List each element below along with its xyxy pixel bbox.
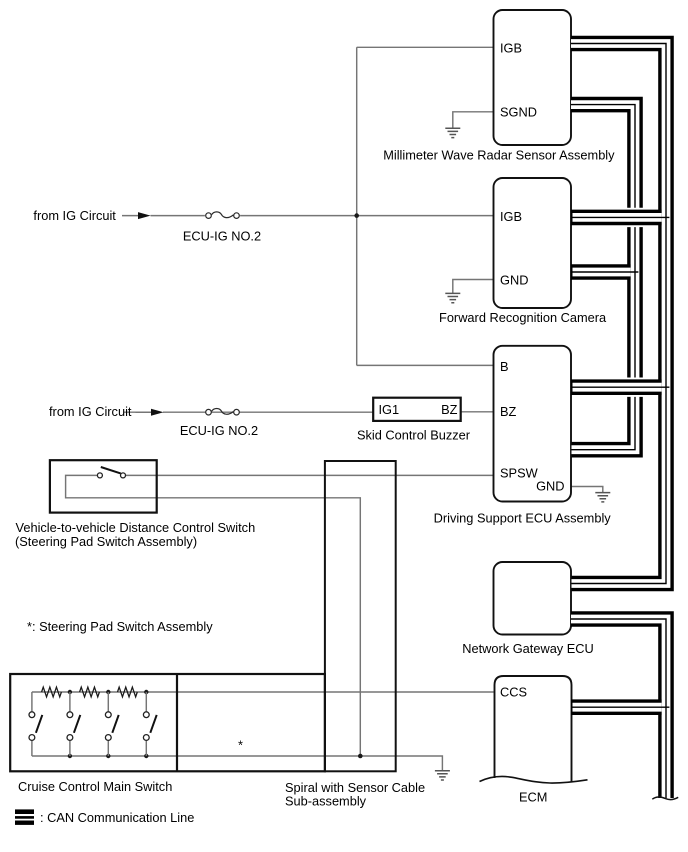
node dots on common row	[68, 754, 72, 758]
svg-text:Cruise Control Main Switch: Cruise Control Main Switch	[18, 779, 172, 794]
wire ECU GND to ground	[571, 487, 603, 493]
svg-text:Driving Support ECU Assembly: Driving Support ECU Assembly	[434, 511, 612, 526]
box ECM U5 (torn bottom)	[495, 676, 572, 782]
svg-text:BZ: BZ	[500, 404, 517, 419]
svg-text:CCS: CCS	[500, 684, 527, 699]
switch vehicle-to-vehicle distance control	[97, 467, 125, 478]
box spiral with sensor cable sub-assembly	[325, 461, 396, 771]
wire cruise switch common to ground (through spiral cable)	[32, 756, 443, 770]
svg-text:GND: GND	[536, 478, 564, 493]
wire trunk A2 torn end squiggle	[652, 797, 678, 800]
CAN line path1: radar IGB to trunk A to network gateway upper pin	[571, 44, 666, 584]
switch cruise column 4	[143, 692, 156, 756]
switch cruise column 1	[29, 692, 42, 756]
svg-text:*: Steering Pad Switch Assembl: *: Steering Pad Switch Assembly	[27, 619, 213, 634]
svg-text:from IG Circuit: from IG Circuit	[49, 404, 132, 419]
box forward recognition camera U2	[494, 178, 572, 308]
svg-text:Millimeter Wave Radar Sensor A: Millimeter Wave Radar Sensor Assembly	[383, 147, 615, 162]
box network gateway ECU U4	[494, 562, 572, 635]
wire cruise box divider	[176, 674, 178, 771]
svg-text:*: *	[238, 737, 243, 752]
svg-text:Forward Recognition Camera: Forward Recognition Camera	[439, 310, 607, 325]
CAN line path2: radar SGND to trunk B to ECU lower pin	[571, 105, 635, 450]
svg-text:Vehicle-to-vehicle Distance Co: Vehicle-to-vehicle Distance Control Swit…	[16, 520, 256, 535]
svg-text:Network Gateway ECU: Network Gateway ECU	[462, 641, 594, 656]
svg-text:ECU-IG NO.2: ECU-IG NO.2	[183, 228, 261, 243]
CAN line path6: network gateway lower pin to trunk A2 down to torn end	[571, 619, 666, 798]
box driving support ECU assembly U3	[494, 346, 572, 502]
wire radar IGB feed	[357, 46, 494, 48]
svg-text:GND: GND	[500, 273, 528, 288]
box vehicle-to-vehicle distance control switch	[50, 460, 157, 512]
CAN line path5: ECU upper pin crossing trunk B to trunk A (T join)	[571, 378, 669, 397]
box cruise control main switch	[10, 674, 325, 771]
svg-text:Sub-assembly: Sub-assembly	[285, 794, 367, 809]
box millimeter wave radar sensor assembly U1	[494, 10, 572, 145]
svg-text:IG1: IG1	[379, 402, 400, 417]
svg-text:IGB: IGB	[500, 41, 522, 56]
wire row 2 from fuse to buzzer	[124, 411, 373, 413]
resistor R1 cruise switch	[42, 687, 62, 697]
fuse ECU-IG NO.2 row 1	[206, 212, 240, 219]
arrow from IG circuit row 2	[136, 411, 153, 413]
svg-text:ECU-IG NO.2: ECU-IG NO.2	[180, 423, 258, 438]
CAN line path4: camera GND level to trunk B (T join)	[571, 264, 638, 280]
wire distance switch return through spiral cable	[66, 475, 361, 756]
wire radar SGND to ground	[453, 112, 494, 128]
ground camera GND	[445, 293, 460, 302]
fuse ECU-IG NO.2 row 2	[206, 408, 240, 415]
wire cruise switch resistor row to ECM CCS	[32, 691, 494, 693]
node junction dot row1/vertical bus	[354, 213, 359, 218]
wire ECU B feed	[357, 364, 494, 366]
wire camera IGB feed (row 1 from fuse to camera)	[151, 215, 494, 217]
svg-text:BZ: BZ	[441, 402, 458, 417]
arrow from IG circuit row 1	[122, 215, 139, 217]
svg-text:SGND: SGND	[500, 104, 537, 119]
resistor R2 cruise switch	[80, 687, 100, 697]
ground cruise switch common	[435, 771, 450, 780]
node dots on resistor row	[68, 690, 72, 694]
CAN line path7: ECM CCS level to trunk A2 (T join)	[571, 699, 669, 715]
ground driving support ECU GND	[595, 493, 610, 502]
wire SPSW from distance switch to ECU	[126, 474, 494, 476]
resistor R3 cruise switch	[118, 687, 138, 697]
svg-text:from IG Circuit: from IG Circuit	[33, 208, 116, 223]
wire buzzer BZ to ECU BZ	[461, 411, 494, 413]
ground radar SGND	[445, 128, 460, 137]
switch cruise column 3	[105, 692, 118, 756]
svg-text:B: B	[500, 359, 509, 374]
svg-text:ECM: ECM	[519, 790, 547, 805]
wire camera GND to ground	[453, 280, 494, 294]
node junction dot spiral cable	[358, 754, 363, 759]
wire ECM torn bottom edge	[480, 776, 588, 783]
svg-text:Skid Control Buzzer: Skid Control Buzzer	[357, 428, 471, 443]
svg-text:IGB: IGB	[500, 209, 522, 224]
box skid control buzzer	[373, 398, 461, 421]
legend CAN communication line symbol	[15, 809, 34, 825]
svg-text:(Steering Pad Switch Assembly): (Steering Pad Switch Assembly)	[15, 534, 197, 549]
svg-text:: CAN Communication Line: : CAN Communication Line	[40, 810, 194, 825]
CAN line path3: camera IGB level crossing trunk B to trunk A (T join)	[571, 208, 669, 227]
switch cruise column 2	[67, 692, 80, 756]
svg-text:SPSW: SPSW	[500, 466, 539, 481]
wire supply vertical bus from fuse row to IGB/B pins	[356, 47, 358, 365]
